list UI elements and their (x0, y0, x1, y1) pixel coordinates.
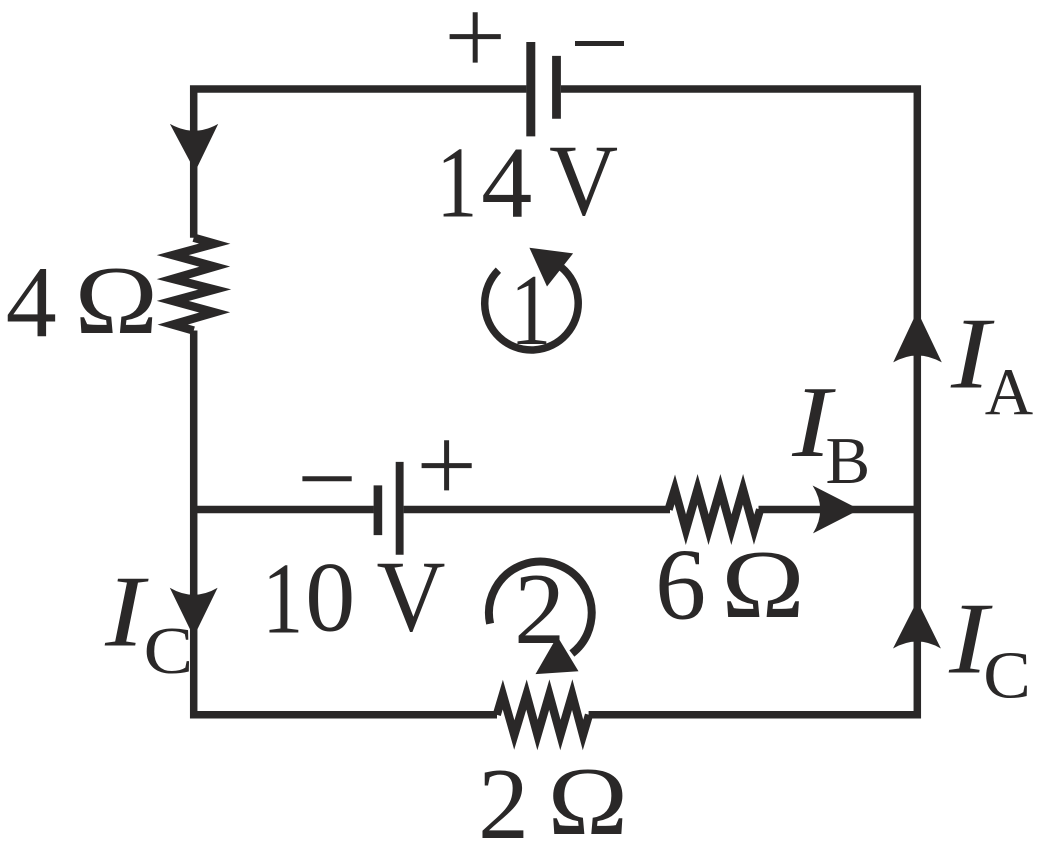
svg-text:I: I (104, 556, 149, 669)
svg-text:4: 4 (481, 127, 532, 240)
svg-text:0: 0 (305, 541, 355, 652)
wire middle branch: resistor R2 to right node (759, 506, 918, 514)
battery B2 10V short plate (374, 485, 383, 535)
battery B1 minus sign (575, 41, 624, 46)
resistor R3 2-ohm horizontal zigzag (497, 695, 589, 735)
wire middle branch: left node to battery B2 (194, 506, 374, 514)
svg-text:V: V (377, 540, 446, 653)
svg-text:C: C (983, 638, 1031, 712)
wire middle branch: battery B2 to resistor R2 (404, 506, 670, 514)
svg-text:2: 2 (514, 553, 565, 666)
svg-text:1: 1 (262, 542, 303, 655)
loop 2 arrowhead (536, 636, 579, 674)
svg-text:Ω: Ω (548, 748, 628, 852)
svg-text:2: 2 (478, 748, 529, 852)
battery B2 minus sign (302, 476, 351, 481)
arrow up current IC on right wire lower (893, 601, 941, 649)
arrow down on left wire top (170, 124, 218, 171)
arrow down current IC on left wire lower (170, 588, 218, 637)
loop 1 arrowhead (529, 248, 573, 287)
battery B1 14V short plate (552, 56, 561, 119)
wire from battery B1 right plate to top-right corner, right side down, bottom-right to resistor R3 (561, 89, 917, 715)
resistor R1 4-ohm vertical zigzag (173, 238, 215, 331)
resistor R2 6-ohm horizontal zigzag (669, 489, 761, 529)
svg-text:6: 6 (655, 528, 706, 641)
arrow up current IA on right wire (893, 311, 942, 362)
svg-text:1: 1 (436, 127, 477, 240)
arrow right current IB on middle wire (813, 486, 860, 534)
svg-text:Ω: Ω (75, 247, 159, 355)
battery B1 14V long plate (526, 42, 535, 136)
loop 1 circular arrow arc (485, 268, 579, 350)
svg-text:A: A (985, 355, 1033, 429)
wire top-left corner: top wire to battery B1, left side down to resistor R1 (194, 89, 527, 238)
svg-text:4: 4 (6, 246, 57, 359)
svg-text:C: C (144, 614, 194, 688)
battery B2 10V long plate (396, 462, 404, 555)
wire left side below resistor R1 to bottom-left corner, bottom wire to resistor R3 (194, 331, 497, 715)
battery B2 plus sign (422, 440, 472, 490)
loop 2 circular arrow arc (489, 562, 592, 654)
battery B1 plus sign (450, 12, 501, 62)
svg-text:B: B (826, 424, 871, 498)
svg-text:1: 1 (510, 254, 551, 367)
svg-text:Ω: Ω (721, 531, 805, 639)
svg-text:V: V (549, 125, 618, 238)
